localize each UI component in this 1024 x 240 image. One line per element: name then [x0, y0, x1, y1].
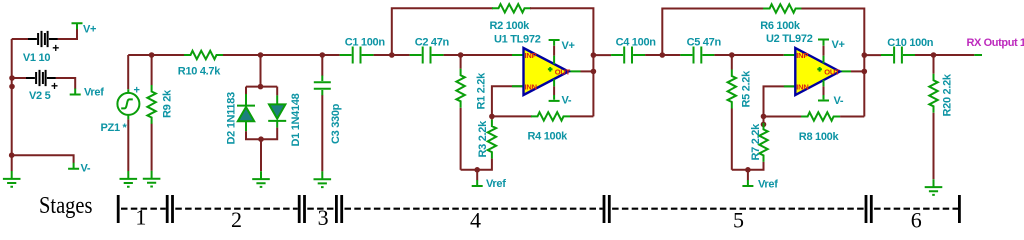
wire R6 feedback right leg	[801, 9, 864, 117]
svg-text:C5 47n: C5 47n	[687, 37, 722, 49]
svg-text:D2 1N1183: D2 1N1183	[226, 92, 238, 145]
svg-text:R6 100k: R6 100k	[760, 20, 801, 32]
stage bars 1-2	[166, 195, 169, 223]
stage dashed line 1	[121, 208, 166, 210]
wire output pin lead	[974, 54, 982, 56]
capacitor C1	[340, 47, 374, 64]
node junction diode top rail	[258, 84, 264, 90]
wire R3 bottom Vref rail	[461, 159, 492, 170]
capacitor C5	[680, 47, 714, 64]
node junction R9 top	[149, 52, 155, 58]
wire diode rail to ground	[260, 139, 262, 171]
capacitor C2	[410, 47, 444, 64]
wire C3 top	[321, 55, 323, 76]
svg-text:V-: V-	[562, 94, 572, 106]
svg-text:INP: INP	[525, 51, 537, 60]
svg-text:3: 3	[318, 205, 329, 230]
wire bottom to V- terminal	[12, 155, 74, 163]
resistor R7	[759, 123, 767, 162]
svg-text:R4 100k: R4 100k	[528, 130, 569, 142]
stage bars 4-5	[603, 195, 606, 223]
node junction Vref tap stage5	[745, 167, 751, 173]
wire R5 bottom to Vref rail	[731, 109, 733, 170]
wire R1 top	[460, 55, 462, 69]
wire R7 top	[763, 116, 765, 123]
svg-text:OUT: OUT	[824, 67, 840, 76]
diode D2	[237, 94, 255, 131]
wire U1 output to rail	[581, 70, 594, 72]
svg-text:5: 5	[733, 208, 744, 232]
resistor R6	[763, 4, 802, 12]
svg-text:R20 2.2k: R20 2.2k	[942, 73, 954, 116]
terminal V-	[68, 163, 79, 169]
svg-text:U2 TL972: U2 TL972	[766, 33, 813, 45]
svg-text:V+: V+	[562, 40, 575, 52]
wire battery V1 left to left rail	[12, 38, 28, 40]
wire rail to C4	[593, 54, 611, 56]
wire D2 top stub	[245, 87, 247, 94]
ground PZ1	[120, 171, 138, 187]
node junction R1 top	[458, 52, 464, 58]
svg-text:6: 6	[911, 208, 922, 232]
node junction R2 tap	[389, 52, 395, 58]
resistor R9	[147, 85, 155, 124]
wire R1 bottom to Vref rail	[460, 108, 462, 170]
node junction left rail V2	[9, 75, 15, 81]
op-amp U2	[784, 40, 851, 101]
wire R2 feedback right leg	[530, 8, 593, 116]
resistor R5	[728, 70, 736, 109]
svg-text:Vref: Vref	[486, 178, 506, 190]
svg-text:R3 2.2k: R3 2.2k	[477, 120, 489, 158]
node junction diode bottom rail	[258, 136, 264, 142]
svg-text:Stages: Stages	[39, 193, 93, 219]
terminal Vref power	[70, 89, 81, 95]
wire battery V1 right to V+ terminal	[58, 29, 77, 39]
node junction diode branch top	[258, 52, 264, 58]
svg-text:+: +	[134, 85, 140, 97]
wire rail to C10	[864, 54, 881, 56]
wire diode branch vertical	[260, 55, 262, 87]
svg-text:+: +	[52, 41, 59, 55]
wire PZ1 top to main wire	[127, 55, 129, 89]
wire R4 right	[570, 115, 593, 117]
ground C3	[314, 171, 332, 187]
stage dashed line 6	[874, 208, 958, 210]
svg-text:Vref: Vref	[758, 179, 778, 191]
svg-text:V+: V+	[83, 24, 96, 36]
svg-text:R9 2k: R9 2k	[161, 89, 173, 118]
wire R10 to C1	[223, 54, 340, 56]
svg-text:V2 5: V2 5	[29, 90, 51, 102]
svg-text:1: 1	[135, 205, 146, 230]
node junction U2 INN R8	[761, 114, 767, 120]
resistor R2	[492, 4, 531, 12]
svg-text:C2 47n: C2 47n	[415, 37, 450, 49]
resistor R8	[801, 112, 840, 120]
wire main top from PZ1 to R10	[128, 54, 184, 56]
wire D2 bottom to rail	[246, 131, 261, 139]
svg-text:OUT: OUT	[555, 67, 571, 76]
node junction Vref tap stage4	[474, 167, 480, 173]
svg-text:R7 2.2k: R7 2.2k	[750, 123, 762, 161]
svg-text:R8 100k: R8 100k	[799, 131, 840, 143]
wire D1 bottom to rail	[261, 128, 277, 140]
resistor R1	[456, 69, 464, 108]
node junction U1 INN R3 R4	[489, 114, 495, 120]
stage dashed line 4	[345, 208, 603, 210]
svg-text:R10 4.7k: R10 4.7k	[178, 66, 221, 78]
wire R7 bottom Vref rail	[732, 162, 764, 170]
wire Vref stub stage4	[476, 170, 478, 180]
node junction R20 top	[931, 52, 937, 58]
node junction rail C10 stage5	[862, 52, 868, 58]
ground R20	[925, 179, 943, 195]
resistor R3	[488, 120, 496, 159]
svg-text:D1 1N4148: D1 1N4148	[290, 93, 302, 146]
wire R4 left	[492, 115, 532, 117]
terminal Vref stage4	[472, 180, 483, 186]
op source PZ1	[117, 89, 139, 119]
node junction left rail bottom	[9, 152, 15, 158]
wire Vref stub stage5	[747, 170, 749, 180]
svg-text:INN: INN	[525, 83, 537, 92]
wire R3 top	[491, 116, 493, 119]
wire R8 right	[840, 116, 864, 118]
capacitor C10	[881, 47, 915, 64]
wire C10 to output	[915, 54, 974, 56]
svg-text:V1 10: V1 10	[23, 52, 50, 64]
svg-text:RX Output 1: RX Output 1	[967, 37, 1024, 49]
wire C3 bottom to ground	[321, 95, 323, 171]
capacitor C3	[314, 76, 331, 96]
svg-text:INN: INN	[796, 83, 808, 92]
stage dashed line 5	[612, 208, 865, 210]
battery V1	[28, 31, 58, 47]
wire R8 left	[764, 116, 803, 118]
ground R9	[143, 171, 161, 187]
wire R6 feedback left leg	[662, 9, 764, 56]
wire battery V2 right to Vref terminal	[56, 78, 75, 89]
wire left rail to ground	[11, 155, 13, 171]
node junction R5 top	[729, 52, 735, 58]
stage dashed line 2	[175, 208, 297, 210]
stage bar start	[117, 195, 120, 223]
wire U2 output to rail	[851, 70, 864, 72]
svg-text:PZ1 *: PZ1 *	[101, 122, 128, 134]
ground left rail	[3, 171, 21, 187]
wire R2 feedback left leg	[392, 8, 493, 55]
svg-text:U1 TL972: U1 TL972	[494, 34, 541, 46]
terminal V+	[72, 23, 83, 29]
svg-text:V-: V-	[834, 95, 844, 107]
node junction left rail below V2	[9, 84, 15, 90]
svg-text:R1 2.2k: R1 2.2k	[476, 72, 488, 110]
node junction rail output U2	[862, 69, 868, 75]
wire battery V2 left to left rail	[12, 77, 26, 79]
resistor R10	[184, 51, 223, 59]
svg-text:V-: V-	[81, 163, 91, 175]
wire D1 top stub	[276, 87, 278, 96]
wire C4 to C5	[645, 54, 680, 56]
capacitor C4	[611, 47, 645, 64]
wire U2 INN to junction	[764, 86, 796, 116]
node junction R6 tap	[660, 52, 666, 58]
svg-text:C1 100n: C1 100n	[345, 37, 386, 49]
svg-text:2: 2	[231, 207, 242, 231]
svg-text:R2 100k: R2 100k	[490, 20, 531, 32]
wire C1 to C2	[374, 54, 410, 56]
wire U1 INN to junction	[492, 86, 524, 116]
wire R5 top	[731, 55, 733, 70]
wire R9 top	[151, 55, 153, 85]
battery V2	[26, 70, 56, 86]
op-amp U1	[512, 40, 581, 101]
wire C2 to U1 INP	[444, 54, 512, 56]
svg-text:C3 330p: C3 330p	[330, 103, 342, 144]
svg-text:4: 4	[470, 208, 481, 232]
stage dashed line 3	[307, 208, 335, 210]
ground diodes	[252, 171, 270, 187]
node junction rail output U1	[591, 69, 597, 75]
svg-text:+: +	[51, 79, 58, 93]
wire left rail vertical	[11, 39, 13, 155]
svg-text:R5 2.2k: R5 2.2k	[741, 70, 753, 108]
node junction rail C4 stage4	[591, 52, 597, 58]
wire PZ1 bottom to ground	[127, 119, 129, 171]
node junction C3 top	[320, 52, 326, 58]
resistor R20	[929, 74, 937, 113]
svg-text:C10 100n: C10 100n	[887, 37, 933, 49]
terminal Vref stage5	[742, 180, 753, 186]
stage bars 5-6	[865, 195, 868, 223]
stage bar end	[958, 195, 961, 223]
svg-text:INP: INP	[796, 51, 808, 60]
wire diode top rail	[246, 86, 277, 88]
svg-text:Vref: Vref	[84, 87, 104, 99]
stage bars 3-4	[335, 195, 338, 223]
wire R20 top	[933, 55, 935, 74]
diode D1	[268, 95, 286, 127]
wire R20 bottom to ground	[933, 113, 935, 179]
stage bars 2-3	[298, 195, 301, 223]
svg-text:V+: V+	[832, 39, 845, 51]
node junction below U2 INN	[761, 122, 767, 128]
wire R9 bottom to ground	[151, 124, 153, 171]
wire C5 to U2 INP	[714, 54, 783, 56]
resistor R4	[531, 112, 570, 120]
svg-text:C4 100n: C4 100n	[616, 37, 657, 49]
